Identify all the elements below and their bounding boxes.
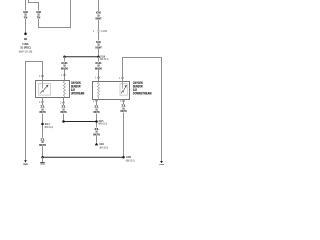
wire label K141 upstream heater: [61, 61, 69, 70]
wire label K141 feed below C109: [94, 40, 102, 49]
splice S116: [63, 55, 108, 62]
pin 1: [119, 77, 123, 80]
upstream heater resistor: [63, 81, 65, 98]
oxygen sensor 1/2 downstream box: [93, 82, 130, 100]
wire v1 fused B+ feed: [25, 0, 27, 33]
wire label Z1 downstream pin3: [119, 104, 127, 113]
svg-text:(8W-51-2): (8W-51-2): [44, 126, 53, 129]
fuse 31 PDC label: [19, 38, 33, 53]
splice S115: [62, 119, 107, 126]
svg-text:DG/WT: DG/WT: [95, 46, 102, 49]
ground arrow tip left: [24, 160, 27, 162]
wire v2 loop through top: [29, 0, 71, 28]
ground arrow tip right: [160, 161, 163, 163]
svg-text:FUSE: FUSE: [23, 42, 29, 46]
svg-text:G107: G107: [159, 164, 164, 165]
pin 1: [95, 77, 99, 80]
svg-text:DOWNSTREAM: DOWNSTREAM: [133, 92, 152, 96]
wire label Z1 downstream heater ground: [92, 105, 100, 114]
svg-text:G302: G302: [126, 155, 131, 159]
svg-text:(8W-10-18): (8W-10-18): [19, 50, 33, 53]
svg-text:TN: TN: [37, 16, 41, 19]
svg-text:31 (PDC): 31 (PDC): [20, 45, 31, 49]
svg-text:(8W-30-2): (8W-30-2): [100, 58, 109, 61]
wire downstream pin3 to ground bus: [123, 100, 125, 158]
svg-text:BK/TN: BK/TN: [40, 111, 46, 114]
svg-text:F32: F32: [24, 38, 27, 41]
svg-text:BK/TN: BK/TN: [121, 110, 127, 113]
wire label Z1 upstream signal return: [38, 105, 46, 114]
wire label A142 fuse wire: [21, 10, 29, 19]
off-page arrow G301: [95, 142, 109, 149]
wire label K141 feed wire: [94, 11, 102, 20]
svg-text:(8W-15-3): (8W-15-3): [99, 147, 108, 150]
svg-text:BK/TN: BK/TN: [39, 144, 46, 147]
wire S116 left leg: [64, 57, 66, 81]
wire label K141 downstream heater: [95, 61, 103, 70]
pin 1: [61, 74, 65, 77]
ground symbol G302: [40, 157, 45, 167]
wire label Z1 below S115: [92, 127, 100, 136]
svg-text:(8W-15-3): (8W-15-3): [126, 160, 135, 163]
downstream sensor element symbol: [120, 82, 127, 96]
ground bus bar: [41, 155, 134, 163]
downstream heater resistor: [98, 82, 100, 100]
svg-text:BK/DG: BK/DG: [95, 67, 102, 70]
wire downstream pin2 to off-page arrow: [96, 100, 98, 143]
svg-text:BK/DG: BK/DG: [61, 67, 68, 70]
oxygen sensor downstream name: [133, 81, 152, 96]
svg-text:TN: TN: [24, 16, 28, 19]
wire downstream signal loop to ground right: [123, 58, 162, 162]
svg-text:BK/TN: BK/TN: [93, 133, 100, 136]
pin 4: [39, 101, 43, 104]
pin 2: [93, 100, 97, 103]
wire upstream pin4 to ground bus: [42, 98, 44, 158]
pin 2: [60, 102, 64, 105]
wire label Z1 below S114: [38, 138, 46, 147]
svg-text:BK/WT: BK/WT: [96, 17, 102, 20]
wire upstream pin2 to splice S115: [63, 98, 65, 122]
pin 1: [39, 75, 43, 78]
svg-text:G302: G302: [23, 163, 28, 165]
fuse terminal dot: [24, 33, 27, 36]
upstream sensor element symbol: [39, 81, 51, 96]
oxygen sensor upstream name: [71, 81, 85, 96]
svg-text:BK/TN: BK/TN: [94, 111, 100, 114]
pin 3: [120, 100, 124, 103]
svg-text:BK/TN: BK/TN: [61, 111, 67, 114]
svg-text:(8W-51-2): (8W-51-2): [98, 123, 107, 126]
wire upstream pin1 to ground G302: [26, 62, 43, 161]
wire label A142 loop wire: [34, 10, 42, 19]
wire S116 right leg: [98, 57, 100, 82]
oxygen sensor 1/2 upstream box: [36, 81, 70, 98]
svg-text:UPSTREAM: UPSTREAM: [71, 92, 85, 96]
wire label Z1 upstream heater ground: [59, 105, 67, 114]
wire v3 to splice S116: [98, 0, 100, 57]
svg-text:C109: C109: [101, 30, 108, 33]
splice S114: [41, 122, 53, 129]
in-line connector C109: [93, 30, 108, 33]
